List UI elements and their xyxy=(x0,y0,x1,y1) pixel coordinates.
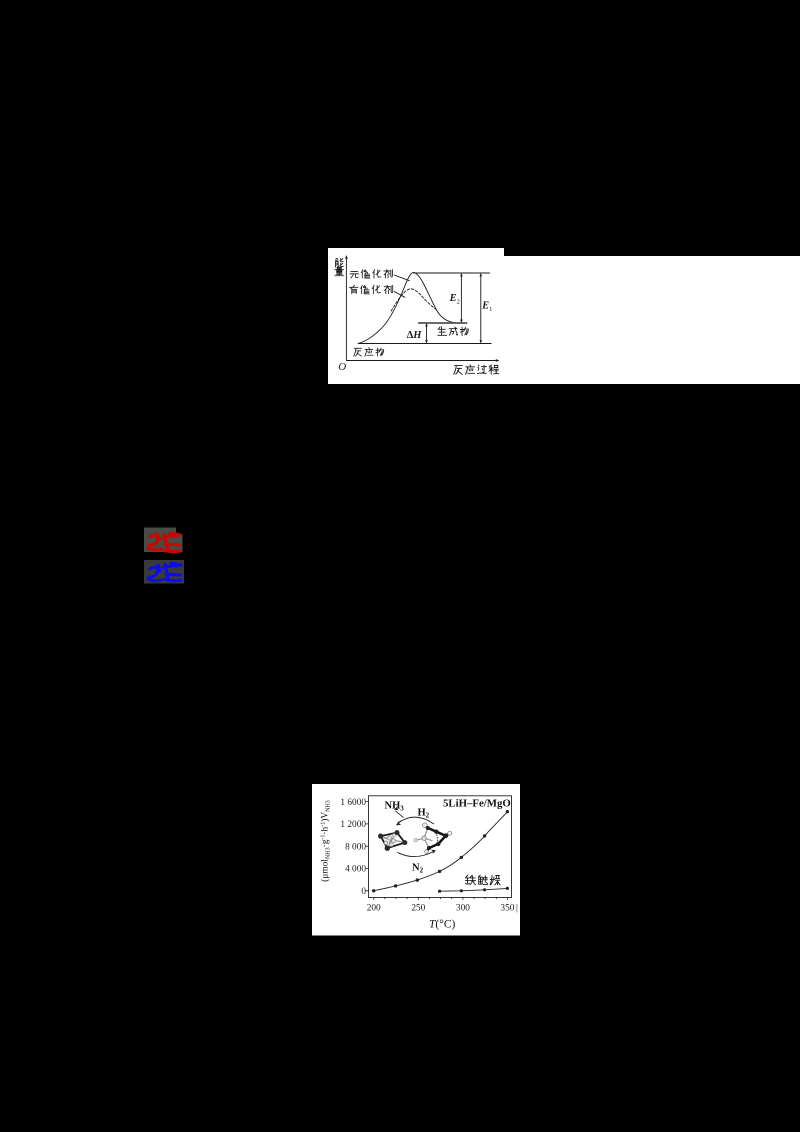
svg-text:1 6000: 1 6000 xyxy=(340,798,366,808)
main curve xyxy=(374,812,508,891)
svg-text:1 2000: 1 2000 xyxy=(340,820,366,830)
pointer to dashed curve xyxy=(394,291,405,297)
有催化剂 xyxy=(349,285,358,294)
svg-text:T(°C): T(°C) xyxy=(429,919,456,931)
svg-text:|: | xyxy=(516,904,518,914)
iron catalyst curve xyxy=(440,888,508,891)
铁触媒 xyxy=(465,875,475,885)
tick labels xyxy=(340,798,518,914)
反应物 xyxy=(354,348,362,356)
svg-text:1: 1 xyxy=(489,306,492,313)
figure 2: rate vs temperature xyxy=(312,784,520,936)
formula labels xyxy=(385,798,511,875)
cycle arrows xyxy=(395,811,434,857)
能量 vertical axis label xyxy=(335,258,343,267)
arrowheads xyxy=(345,255,348,259)
x-axis xyxy=(346,359,497,361)
CJK labels fig2 xyxy=(465,875,500,885)
反应过程 xyxy=(454,365,463,374)
Latin labels xyxy=(338,293,492,373)
pointer to solid curve xyxy=(394,275,409,281)
svg-text:2: 2 xyxy=(456,298,459,305)
products level line xyxy=(418,321,466,323)
svg-text:250: 250 xyxy=(411,904,425,914)
figure 1: energy diagram xyxy=(328,248,504,385)
y-axis xyxy=(345,256,347,360)
E1 arrow xyxy=(480,274,482,341)
dH arrow xyxy=(425,324,427,341)
left cluster bonds xyxy=(381,833,405,849)
svg-text:0: 0 xyxy=(361,887,366,897)
生成物 xyxy=(438,326,447,335)
right cluster bonds xyxy=(425,825,450,851)
E2 arrow xyxy=(460,274,462,321)
x ticks xyxy=(374,898,508,900)
svg-text:4 000: 4 000 xyxy=(345,865,366,875)
CJK labels drawn as strokes xyxy=(334,258,498,374)
dashed curve (catalyst) xyxy=(391,288,436,310)
svg-text:8 000: 8 000 xyxy=(345,842,366,852)
svg-text:350: 350 xyxy=(500,904,514,914)
plot box xyxy=(369,796,512,898)
svg-text:(μmolNH3·g-1·h-1)VNH3: (μmolNH3·g-1·h-1)VNH3 xyxy=(320,800,332,882)
y major ticks xyxy=(366,802,369,891)
molecules xyxy=(378,823,452,853)
svg-text:O: O xyxy=(338,360,346,372)
无催化剂 xyxy=(350,271,359,278)
svg-text:200: 200 xyxy=(367,904,381,914)
svg-text:300: 300 xyxy=(456,904,470,914)
solid curve (no catalyst) xyxy=(358,272,455,343)
svg-text:5LiH–Fe/MgO: 5LiH–Fe/MgO xyxy=(443,798,511,810)
red scribble xyxy=(140,524,190,586)
top reference line xyxy=(413,272,489,274)
CJK glyph stroke defs (drawn, 100x100 boxes) xyxy=(0,0,4,4)
white band right of figure 1 xyxy=(503,256,800,384)
svg-text:ΔH: ΔH xyxy=(406,329,422,340)
svg-text:E: E xyxy=(448,293,456,304)
svg-text:E: E xyxy=(481,300,489,311)
reactants level line xyxy=(358,342,491,344)
